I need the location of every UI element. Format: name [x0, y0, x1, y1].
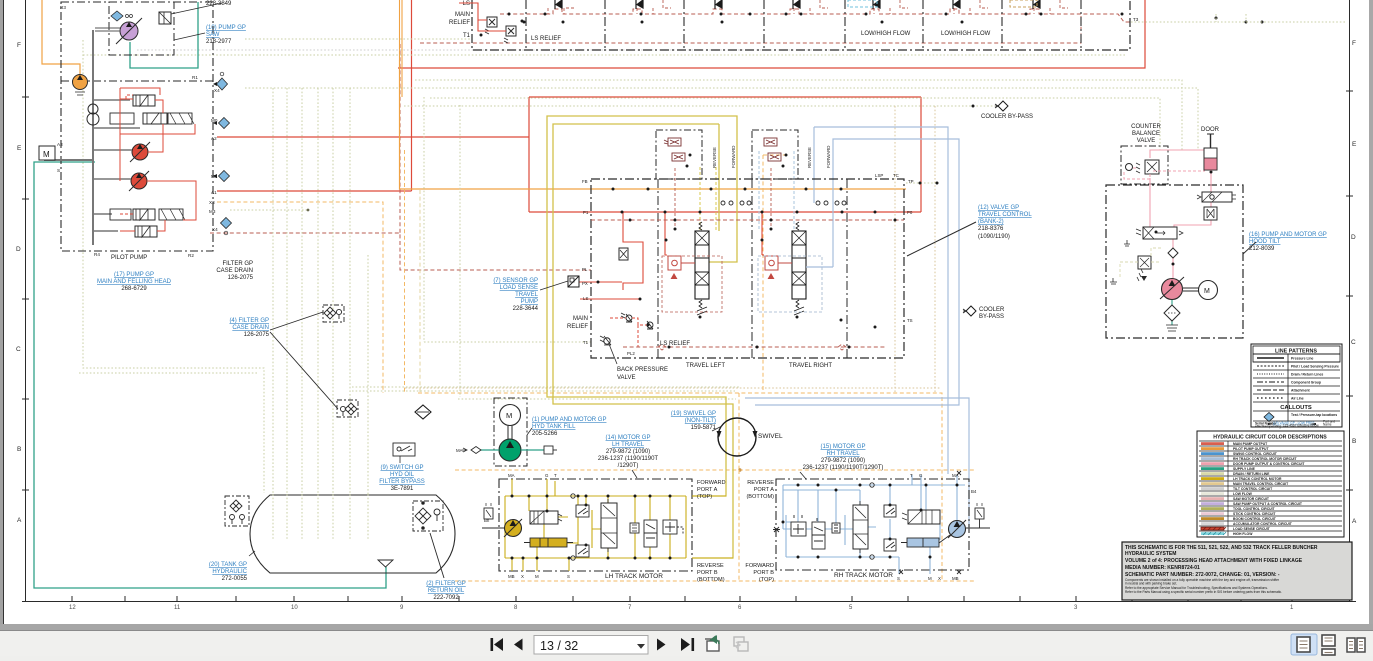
svg-text:VOLUME 2 of 4: PROCESSING HEAD: VOLUME 2 of 4: PROCESSING HEAD ATTACHMEN…	[1125, 558, 1303, 564]
wire green dotted verticals	[83, 40, 460, 494]
color swatches	[1201, 442, 1226, 535]
blue spool out	[806, 266, 833, 268]
svg-text:HYD OIL: HYD OIL	[390, 472, 415, 478]
svg-text:BACK PRESSURE: BACK PRESSURE	[617, 367, 668, 373]
maroon dashed ls relief line	[623, 344, 885, 350]
counter balance valve box	[1121, 146, 1168, 184]
compensator right	[765, 256, 792, 279]
RH shuttle tall	[853, 501, 868, 553]
label (7) SENSOR GP	[493, 278, 538, 312]
dot junctions hood	[1155, 171, 1213, 266]
wire orange P8	[400, 60, 907, 189]
svg-text:HYDRAULIC SYSTEM: HYDRAULIC SYSTEM	[1125, 551, 1176, 557]
svg-text:Attachment: Attachment	[1291, 389, 1311, 393]
svg-text:279-9872 (1090): 279-9872 (1090)	[606, 449, 650, 455]
diamond cooler sym	[415, 405, 431, 419]
svg-text:/1290T): /1290T)	[618, 463, 639, 469]
svg-text:M: M	[928, 576, 932, 581]
label (2) FILTER GP RETURN OIL	[426, 581, 466, 601]
svg-text:TS: TS	[907, 318, 913, 323]
svg-text:279-9872 (1090): 279-9872 (1090)	[821, 458, 865, 464]
pilot valve L2	[672, 153, 685, 161]
wire maroon dashed LS top	[500, 9, 1131, 22]
svg-text:D: D	[1351, 234, 1356, 241]
svg-text:228-3849: 228-3849	[206, 1, 232, 7]
svg-text:FB: FB	[582, 179, 588, 184]
hydraulic color table	[1197, 431, 1344, 537]
svg-text:SAW PUMP OUTPUT & CONTROL CIRC: SAW PUMP OUTPUT & CONTROL CIRCUIT	[1233, 502, 1303, 506]
wire yellow box B	[553, 124, 733, 558]
svg-text:A1: A1	[211, 190, 217, 195]
shaft lines saw pump	[95, 28, 120, 31]
filter case drain sym2	[337, 400, 358, 417]
svg-text:HYDRAULIC: HYDRAULIC	[212, 569, 247, 575]
svg-text:P1: P1	[583, 210, 589, 215]
svg-text:(1090/1190): (1090/1190)	[978, 234, 1010, 240]
RH star ports	[773, 471, 961, 574]
callout lines filters	[270, 312, 338, 409]
label COUNTER BALANCE VALVE	[1131, 124, 1161, 144]
cooler bypass top	[972, 101, 1034, 120]
svg-text:LOAD SENSE CIRCUIT: LOAD SENSE CIRCUIT	[1233, 527, 1271, 531]
svg-text:(NON-TILT): (NON-TILT)	[685, 418, 716, 424]
compensator left	[668, 256, 695, 279]
label (20) TANK GP	[209, 562, 248, 582]
svg-text:LOW/HIGH FLOW: LOW/HIGH FLOW	[861, 31, 911, 37]
svg-text:P0: P0	[907, 210, 913, 215]
maroon dashed spool L box	[662, 256, 722, 312]
callout lh motor	[632, 470, 637, 478]
svg-text:B: B	[1352, 438, 1356, 445]
svg-text:Pilot / Load Sensing Pressure: Pilot / Load Sensing Pressure	[1291, 365, 1339, 369]
RH track motor box	[776, 479, 969, 570]
svg-text:(9) SWITCH GP: (9) SWITCH GP	[381, 465, 424, 471]
svg-text:(19) SWIVEL GP: (19) SWIVEL GP	[671, 411, 716, 417]
btn two page view	[1347, 638, 1365, 652]
motor M tank fill	[500, 405, 521, 426]
maroon dashed px line	[591, 219, 904, 221]
page number box	[534, 636, 648, 655]
sheet left border	[25, 0, 27, 602]
RH port rings	[870, 483, 874, 487]
wire yellow dashed pilot links	[700, 167, 716, 231]
svg-text:MA: MA	[508, 473, 515, 478]
svg-text:TILT CONTROL CIRCUIT: TILT CONTROL CIRCUIT	[1233, 487, 1273, 491]
svg-text:Refer to the Parts Manual usin: Refer to the Parts Manual using a specif…	[1125, 590, 1282, 594]
svg-text:effective/operating: effective/operating	[1255, 425, 1281, 429]
svg-text:X: X	[938, 576, 941, 581]
door check sym	[1204, 207, 1217, 220]
svg-text:159-5871: 159-5871	[691, 425, 717, 431]
svg-text:SWIVEL: SWIVEL	[758, 433, 783, 440]
svg-text:218-8376: 218-8376	[978, 226, 1004, 232]
green dotted right drop	[1216, 14, 1246, 22]
blue dashed spool R box	[758, 256, 822, 312]
callout back pressure	[609, 344, 617, 364]
svg-text:(12) VALVE GP: (12) VALVE GP	[978, 205, 1019, 211]
svg-text:Test / Pressure-tap locations: Test / Pressure-tap locations	[1291, 413, 1337, 417]
gear circles	[88, 104, 98, 114]
svg-text:222-7092: 222-7092	[433, 595, 459, 601]
regulator valve row2	[143, 113, 167, 124]
svg-text:A3: A3	[57, 142, 63, 147]
label (16) PUMP AND MOTOR GP HOOD TILT	[1249, 232, 1327, 252]
svg-text:A: A	[1352, 518, 1357, 525]
svg-text:E: E	[17, 145, 22, 152]
junction dots bank	[480, 13, 1264, 37]
btn prev page	[514, 639, 523, 651]
svg-text:VALVE: VALVE	[1137, 138, 1155, 144]
svg-text:126-2075: 126-2075	[244, 332, 270, 338]
svg-text:Air Line: Air Line	[1291, 397, 1304, 401]
teal suction line	[476, 449, 544, 451]
label REVERSE PORT A BOTTOM	[746, 480, 774, 500]
btn continuous scroll	[1322, 635, 1335, 655]
svg-text:in neutral and with parking br: in neutral and with parking brake set.	[1125, 582, 1177, 586]
RH pump	[949, 521, 966, 538]
svg-text:(TOP): (TOP)	[759, 577, 774, 583]
label (9) SWITCH GP	[379, 465, 424, 492]
pump and motor tank fill box	[494, 398, 527, 466]
svg-text:(10) PUMP GP: (10) PUMP GP	[206, 25, 246, 31]
svg-text:B4: B4	[971, 489, 977, 494]
svg-text:Bn: Bn	[484, 518, 490, 523]
svg-text:TRAVEL LEFT: TRAVEL LEFT	[686, 363, 725, 369]
svg-text:REVERSE: REVERSE	[807, 147, 812, 168]
motor M box	[39, 146, 55, 160]
svg-text:S: S	[57, 168, 60, 173]
red LS feed	[459, 3, 487, 20]
svg-text:MB: MB	[508, 574, 515, 579]
svg-text:FILTER GP: FILTER GP	[222, 261, 253, 267]
red ls relief wires	[610, 318, 647, 347]
svg-text:T3: T3	[1133, 17, 1139, 22]
callout saw label	[174, 33, 205, 40]
LH yellow buses	[505, 479, 733, 571]
btn single page (active)	[1291, 634, 1317, 655]
svg-text:TRAVEL: TRAVEL	[515, 292, 539, 298]
tank sym hood	[1166, 325, 1178, 331]
LH orifice stack	[630, 523, 639, 533]
wire yellow box A	[547, 116, 737, 496]
door control valve	[1197, 192, 1236, 202]
svg-text:10: 10	[291, 605, 298, 611]
svg-text:B: B	[17, 446, 21, 453]
svg-text:SAW MOTOR CIRCUIT: SAW MOTOR CIRCUIT	[1233, 497, 1270, 501]
port labels	[57, 5, 220, 258]
cyan dashed swing box	[848, 0, 877, 7]
svg-text:BOOM CONTROL CIRCUIT: BOOM CONTROL CIRCUIT	[1233, 517, 1277, 521]
bank dividers	[526, 0, 1081, 50]
pink door line	[1173, 170, 1211, 283]
label (19) SWIVEL GP	[671, 411, 717, 431]
door cylinder	[1204, 134, 1217, 170]
LH pilot valves	[576, 505, 589, 557]
svg-text:PORT B: PORT B	[753, 570, 774, 576]
svg-text:BY-PASS: BY-PASS	[979, 314, 1004, 320]
svg-text:LS RELIEF: LS RELIEF	[531, 36, 561, 42]
port arrows	[213, 82, 217, 178]
RH cylinder	[907, 538, 939, 547]
wire blue swivel to RH right	[745, 398, 969, 528]
label (4) FILTER GP CASE DRAIN	[229, 318, 269, 338]
back pressure valve	[600, 336, 611, 345]
cooler bypass mid	[963, 306, 1005, 320]
svg-text:S: S	[897, 576, 900, 581]
wire orange dashed risers	[738, 470, 740, 581]
funnel breather	[378, 560, 393, 567]
wire blue spool to swivel	[755, 139, 959, 405]
svg-text:REVERSE: REVERSE	[747, 480, 774, 486]
svg-text:M: M	[535, 574, 539, 579]
svg-text:X4: X4	[212, 227, 218, 232]
gray drive shaft	[92, 30, 94, 245]
wire tan dotted band	[405, 387, 940, 389]
callout example row	[1255, 420, 1335, 429]
svg-text:PILOT PUMP: PILOT PUMP	[111, 255, 147, 261]
sheet right border	[1349, 0, 1351, 602]
tilt valve	[1136, 227, 1183, 239]
callout rh motor	[800, 472, 806, 479]
svg-text:HYD TANK FILL: HYD TANK FILL	[532, 424, 576, 430]
wire orange dashed motor loop bottom	[455, 580, 975, 582]
label FORWARD PORT B TOP	[745, 563, 774, 583]
btn previous view	[705, 635, 719, 651]
svg-text:LOW/HIGH FLOW: LOW/HIGH FLOW	[941, 31, 991, 37]
line pattern rows	[1253, 354, 1340, 402]
main relief sym	[619, 248, 628, 260]
svg-text:FORWARD: FORWARD	[745, 563, 774, 569]
svg-text:DOOR PUMP OUTPUT & CONTROL CIR: DOOR PUMP OUTPUT & CONTROL CIRCUIT	[1233, 462, 1305, 466]
svg-text:228-3644: 228-3644	[513, 306, 539, 312]
pump hood tilt pink	[1162, 279, 1183, 300]
btn first page	[491, 638, 494, 651]
LH brake valve	[530, 511, 562, 524]
svg-text:126-2075: 126-2075	[228, 275, 254, 281]
wire gray dotted saw drain	[137, 49, 856, 51]
svg-text:X4: X4	[214, 88, 220, 93]
svg-text:MB: MB	[952, 576, 959, 581]
svg-text:(14) MOTOR GP: (14) MOTOR GP	[606, 435, 651, 441]
svg-text:(20) TANK GP: (20) TANK GP	[209, 562, 247, 568]
regulator valve row4	[135, 226, 157, 237]
tank gp hydraulic	[250, 495, 455, 573]
svg-text:RELIEF: RELIEF	[449, 20, 470, 26]
svg-text:(17) PUMP GP: (17) PUMP GP	[114, 272, 154, 278]
red control wires	[120, 88, 196, 231]
pump U-saw purple	[120, 22, 138, 40]
svg-text:RETURN OIL: RETURN OIL	[428, 588, 465, 594]
filter case drain return box	[225, 496, 249, 526]
svg-text:DRAIN / RETURN LINE: DRAIN / RETURN LINE	[1233, 472, 1270, 476]
callout tank fill	[527, 428, 532, 435]
shaft hood	[1183, 288, 1199, 291]
svg-text:A2: A2	[211, 136, 217, 141]
svg-text:D: D	[16, 246, 21, 253]
check valves row	[555, 0, 1040, 9]
tank internal dotted	[273, 494, 368, 540]
wire red main pump top loop	[398, 0, 1145, 68]
svg-text:A: A	[17, 517, 22, 524]
svg-text:LS RELIEF: LS RELIEF	[660, 341, 690, 347]
svg-text:11: 11	[174, 605, 181, 611]
svg-text:Pressure Line: Pressure Line	[1291, 357, 1314, 361]
svg-text:TC: TC	[893, 173, 899, 178]
svg-text:SUPPLY LINE: SUPPLY LINE	[1233, 467, 1256, 471]
travel box dividers	[658, 179, 847, 358]
svg-text:236-1237 (1190/1190T: 236-1237 (1190/1190T	[598, 456, 658, 462]
teal filter hood	[1171, 300, 1173, 325]
svg-text:COOLER: COOLER	[979, 307, 1005, 313]
label FILTER GP CASE DRAIN	[216, 261, 253, 281]
svg-text:DOOR: DOOR	[1201, 127, 1220, 133]
callout swivel	[712, 426, 722, 431]
right window edge strip	[1369, 0, 1373, 625]
diamond M1	[219, 171, 230, 182]
label (1) PUMP AND MOTOR GP	[532, 417, 606, 437]
ls relief syms	[621, 313, 653, 329]
svg-text:R3: R3	[60, 5, 66, 10]
page left edge line	[3, 0, 5, 625]
svg-text:(TOP): (TOP)	[697, 494, 712, 500]
pump tank fill green	[499, 439, 521, 461]
tank stub 1	[1124, 240, 1130, 246]
LH pump	[482, 527, 504, 529]
pilot box right	[752, 130, 798, 179]
dashed drain hood	[1120, 248, 1163, 278]
motor M hood	[1199, 281, 1218, 300]
svg-text:R4: R4	[94, 252, 100, 257]
label (12) VALVE GP	[978, 205, 1032, 240]
svg-text:205-5266: 205-5266	[532, 431, 558, 437]
svg-text:M: M	[1204, 288, 1210, 295]
svg-text:PORT A: PORT A	[697, 487, 718, 493]
port labels travel	[582, 173, 914, 356]
port rings top	[721, 201, 846, 205]
svg-text:(4) FILTER GP: (4) FILTER GP	[229, 318, 269, 324]
btn last page	[681, 638, 690, 651]
svg-text:TRAVEL CONTROL: TRAVEL CONTROL	[978, 212, 1032, 218]
row letters	[16, 40, 1357, 525]
svg-text:SAW: SAW	[206, 32, 220, 38]
svg-text:CASE DRAIN: CASE DRAIN	[216, 268, 253, 274]
pilot box left	[656, 130, 702, 179]
svg-text:(BANK-2): (BANK-2)	[978, 219, 1004, 225]
LH relief pair	[644, 520, 683, 547]
swivel gp circle	[718, 418, 756, 456]
svg-text:FORWARD: FORWARD	[826, 146, 831, 168]
svg-text:(2) FILTER GP: (2) FILTER GP	[426, 581, 466, 587]
svg-text:LH TRACK MOTOR: LH TRACK MOTOR	[605, 573, 663, 580]
svg-text:HIGH FLOW: HIGH FLOW	[1233, 532, 1253, 536]
svg-text:LSP: LSP	[875, 173, 883, 178]
svg-text:TOOL CONTROL CIRCUIT: TOOL CONTROL CIRCUIT	[1233, 507, 1276, 511]
svg-text:T1: T1	[463, 33, 471, 39]
wire blue dashed pilot links	[759, 151, 794, 231]
regulator valve row3	[133, 209, 155, 220]
label (15) MOTOR GP RH TRAVEL	[803, 444, 884, 471]
svg-text:(7) SENSOR GP: (7) SENSOR GP	[493, 278, 538, 284]
svg-text:BALANCE: BALANCE	[1132, 131, 1160, 137]
pilot valve L1	[664, 138, 681, 146]
regulator valve row1	[133, 95, 155, 106]
svg-text:REVERSE: REVERSE	[712, 147, 717, 168]
svg-text:ACCUMULATOR CONTROL CIRCUIT: ACCUMULATOR CONTROL CIRCUIT	[1233, 522, 1293, 526]
label MAIN RELIEF travel	[567, 316, 588, 330]
svg-text:LS: LS	[463, 1, 470, 7]
saw pump sub-box	[109, 2, 174, 55]
ls relief valve	[504, 26, 516, 43]
wire orange dashed X3	[217, 202, 383, 393]
RH small valves	[791, 515, 840, 549]
svg-text:F: F	[1352, 40, 1356, 47]
svg-text:MAIN: MAIN	[455, 12, 470, 18]
wire maroon dashed X4-PL	[210, 44, 591, 270]
svg-text:(15) MOTOR GP: (15) MOTOR GP	[821, 444, 866, 450]
svg-text:F: F	[17, 42, 21, 49]
svg-text:M: M	[43, 150, 50, 159]
svg-text:C: C	[1351, 339, 1356, 346]
btn next view disabled	[734, 637, 748, 651]
ruler ticks	[72, 596, 1292, 602]
svg-text:CASE DRAIN: CASE DRAIN	[232, 325, 269, 331]
callout switch	[399, 456, 401, 463]
toolbar background	[0, 631, 1373, 656]
svg-text:RH TRACK MOTOR: RH TRACK MOTOR	[834, 572, 893, 579]
cb valve body	[1136, 160, 1159, 174]
callout valve gp	[907, 222, 976, 256]
RH brake valve	[902, 510, 940, 524]
wire orange dashed long band	[418, 393, 942, 581]
label BACK PRESSURE VALVE	[617, 367, 668, 381]
svg-text:Name: Name	[1323, 423, 1332, 427]
svg-text:VALVE: VALVE	[617, 375, 635, 381]
svg-text:FILTER BYPASS: FILTER BYPASS	[379, 479, 424, 485]
LH dots	[511, 495, 672, 560]
svg-text:MAIN TRAVEL CONTROL CIRCUIT: MAIN TRAVEL CONTROL CIRCUIT	[1233, 482, 1289, 486]
svg-text:12: 12	[69, 605, 76, 611]
filter case drain sym1	[323, 305, 344, 322]
wire orange pilot top-left	[42, 0, 80, 74]
svg-text:MA: MA	[952, 473, 959, 478]
valve gp travel control box	[591, 179, 904, 358]
callout filter return	[430, 533, 444, 578]
LH track motor box	[499, 479, 692, 571]
wire orange dashed motor loop top	[455, 469, 975, 471]
main relief valve	[485, 17, 497, 34]
svg-text:M0: M0	[211, 118, 218, 123]
pump main red 2	[131, 173, 147, 189]
callout hood	[1243, 242, 1256, 254]
svg-text:SWING CONTROL CIRCUIT: SWING CONTROL CIRCUIT	[1233, 452, 1278, 456]
cb pink wires	[1124, 168, 1205, 179]
diamond saw	[111, 11, 133, 21]
svg-text:R1: R1	[192, 75, 198, 80]
label MAIN RELIEF	[449, 1, 471, 39]
svg-text:FORWARD: FORWARD	[697, 480, 726, 486]
svg-text:236-1237 (1190/1190T/1290T): 236-1237 (1190/1190T/1290T)	[803, 465, 884, 471]
svg-text:R2: R2	[188, 253, 194, 258]
RH dots	[782, 484, 959, 559]
label (17) PUMP GP	[97, 272, 172, 292]
sensor gp load sense	[568, 276, 579, 287]
shaft tank fill	[508, 426, 512, 439]
wire maroon dashed PL2	[420, 16, 1081, 43]
left border ticks	[22, 91, 1353, 490]
RH port labels	[897, 473, 977, 581]
pump main red 1	[132, 144, 148, 160]
label REVERSE PORT B BOTTOM	[697, 563, 725, 583]
